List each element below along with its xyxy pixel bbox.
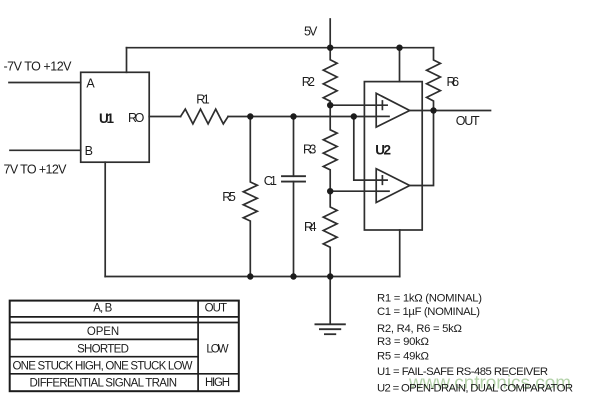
svg-text:R2, R4, R6 = 5kΩ: R2, R4, R6 = 5kΩ (377, 323, 462, 335)
svg-text:C1: C1 (264, 174, 277, 188)
table outer border (10, 301, 239, 392)
svg-text:ONE STUCK HIGH, ONE STUCK LOW: ONE STUCK HIGH, ONE STUCK LOW (13, 361, 193, 373)
table column divider (197, 301, 199, 392)
table header rule (10, 316, 239, 318)
table row rule 1 (10, 338, 198, 340)
svg-text:A: A (86, 77, 95, 91)
svg-text:OPEN: OPEN (87, 326, 119, 338)
node 5V rail / U2 VCC (396, 45, 402, 51)
capacitor C1 top lead (293, 117, 295, 177)
table row rule 2 (10, 356, 198, 358)
svg-text:U1 = FAIL-SAFE RS-485 RECEIVER: U1 = FAIL-SAFE RS-485 RECEIVER (377, 366, 548, 378)
wire U1 ground pin down (104, 162, 106, 276)
comparator U2A plus symbol (378, 101, 387, 109)
resistor R5 (243, 117, 257, 277)
svg-text:DIFFERENTIAL SIGNAL TRAIN: DIFFERENTIAL SIGNAL TRAIN (30, 377, 178, 389)
svg-text:R6: R6 (447, 75, 460, 89)
capacitor C1 plates (282, 175, 305, 177)
wire ground stem (329, 277, 331, 324)
wire input A (9, 82, 81, 84)
notes value list (377, 292, 573, 394)
resistor R6 (427, 48, 441, 111)
wire 5V stub (329, 19, 331, 48)
table double rule (10, 322, 239, 324)
truth table (10, 301, 239, 392)
svg-text:7V TO +12V: 7V TO +12V (4, 162, 68, 176)
node C1 top (290, 113, 296, 119)
comparator U2B minus symbol (378, 190, 389, 192)
wire U2 VCC pin to 5V rail (399, 48, 401, 82)
svg-text:A, B: A, B (93, 303, 112, 315)
wire U2 ground pin down (399, 230, 401, 277)
node R5 bottom (247, 273, 253, 279)
op-amp comparator U2A (376, 93, 410, 127)
op-amp comparator U2B (376, 169, 410, 203)
comparator U2A minus symbol (378, 115, 389, 117)
resistor R4 (323, 191, 337, 276)
resistor R3 (323, 105, 337, 191)
svg-text:5V: 5V (304, 25, 318, 39)
svg-text:U2: U2 (375, 142, 391, 157)
wire RO lead (149, 116, 180, 118)
svg-text:C1 = 1µF (NOMINAL): C1 = 1µF (NOMINAL) (377, 306, 480, 318)
wire bottom ground rail (105, 276, 400, 278)
node R3/R4 junction (327, 188, 333, 194)
svg-text:R5 = 49kΩ: R5 = 49kΩ (377, 351, 429, 363)
svg-text:RO: RO (128, 111, 145, 125)
node R2/R3 junction (327, 102, 333, 108)
svg-text:LOW: LOW (206, 343, 228, 355)
svg-text:R3: R3 (303, 142, 316, 156)
svg-text:R1: R1 (196, 92, 210, 106)
svg-text:B: B (85, 144, 93, 158)
wire OUT (434, 110, 491, 112)
comparator U2B plus symbol (378, 176, 387, 184)
resistor R2 (323, 48, 337, 105)
svg-text:SHORTED: SHORTED (77, 343, 129, 355)
capacitor C1 bottom lead (293, 182, 295, 277)
svg-text:R4: R4 (304, 220, 317, 234)
svg-text:OUT: OUT (456, 114, 480, 128)
svg-text:HIGH: HIGH (205, 377, 230, 389)
svg-text:-7V TO +12V: -7V TO +12V (4, 60, 73, 74)
wire comparator 2 output up to OUT node (410, 111, 434, 186)
svg-text:U1: U1 (99, 111, 114, 126)
node OUT (430, 107, 436, 113)
node 5V rail / divider top (327, 45, 333, 51)
wire R3/R4 junction to comparator 2 minus input (330, 190, 376, 192)
svg-text:R1 = 1kΩ (NOMINAL): R1 = 1kΩ (NOMINAL) (377, 292, 482, 304)
table row rule 3 (10, 373, 239, 375)
ground symbol (315, 324, 345, 334)
wire comparator 1 output to OUT node (410, 110, 434, 112)
IC U1 box (81, 72, 150, 162)
wire input B (10, 149, 81, 151)
svg-text:U2 = OPEN-DRAIN, DUAL COMPARAT: U2 = OPEN-DRAIN, DUAL COMPARATOR (377, 383, 573, 395)
node comparator 2 plus tap (351, 113, 357, 119)
svg-text:R5: R5 (222, 190, 236, 204)
resistor R1 (181, 109, 229, 124)
node C1 bottom (290, 273, 296, 279)
svg-text:R3 = 90kΩ: R3 = 90kΩ (377, 336, 429, 348)
wire R1 output to comparator 1 minus input (228, 116, 376, 118)
wire comparator 2 plus input drop (354, 117, 376, 181)
node R1 out / R5 top (247, 113, 253, 119)
IC U2 box (364, 82, 422, 230)
svg-text:R2: R2 (302, 75, 315, 89)
svg-text:OUT: OUT (205, 303, 227, 315)
wire R2/R3 junction to comparator 1 plus input (330, 104, 376, 106)
wire U1 VCC pin to 5V rail (126, 48, 128, 73)
wire 5V rail (127, 47, 434, 49)
node ground rail / divider bottom (327, 273, 333, 279)
